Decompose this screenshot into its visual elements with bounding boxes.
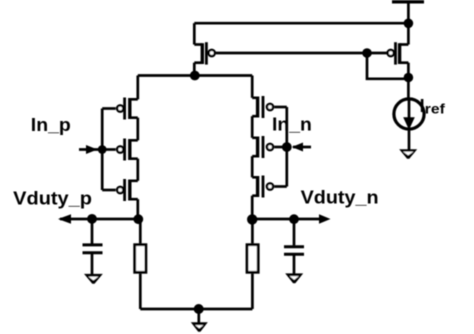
input arrow In_n bbox=[292, 143, 311, 152]
wire right branch between M6 M7 bbox=[251, 116, 254, 138]
wire left branch to Vduty_p rail bbox=[136, 199, 139, 219]
junction M2 gate node bbox=[362, 48, 372, 58]
output arrow Vduty_p bbox=[58, 214, 71, 223]
capacitor C1 bbox=[83, 219, 103, 278]
wire right branch between M7 M8 bbox=[251, 156, 254, 177]
svg-text:Vduty_n: Vduty_n bbox=[301, 187, 379, 207]
VDD supply symbol bbox=[392, 2, 424, 23]
junction In_p gate node bbox=[98, 145, 107, 154]
wire left gate bus bbox=[101, 109, 104, 191]
wire center node to ground bbox=[197, 309, 200, 325]
wire right branch upper bbox=[251, 76, 254, 98]
current source Iref bbox=[394, 99, 424, 130]
input arrow In_p bbox=[79, 145, 98, 154]
svg-text:ref: ref bbox=[425, 101, 445, 117]
transistor M7 PMOS right stack middle bbox=[252, 136, 287, 158]
transistor M4 PMOS left stack middle bbox=[102, 139, 138, 161]
junction VDD node bbox=[404, 19, 414, 29]
junction M2 drain node bbox=[404, 73, 414, 83]
transistor M5 PMOS left stack bottom bbox=[102, 179, 138, 201]
wire bottom rail bbox=[140, 308, 252, 311]
svg-text:Vduty_p: Vduty_p bbox=[13, 189, 92, 209]
wire left branch upper bbox=[136, 76, 139, 100]
svg-text:In_n: In_n bbox=[272, 114, 312, 134]
wire right branch to Vduty_n rail bbox=[251, 196, 254, 219]
ground below C2 bbox=[285, 273, 303, 283]
junction right branch output node bbox=[247, 214, 257, 224]
junction C1 node bbox=[87, 214, 97, 224]
resistor R1 bbox=[135, 219, 146, 309]
ground below C1 bbox=[84, 274, 103, 284]
wire left branch between M4 M5 bbox=[136, 159, 139, 181]
transistor M2 PMOS current-mirror right diode-connected bbox=[388, 23, 409, 77]
node Vduty_p rail wire bbox=[60, 218, 139, 221]
node Vduty_n rail wire bbox=[252, 218, 320, 221]
wire M2 diode connection bbox=[367, 53, 408, 79]
label Iref bbox=[420, 96, 446, 117]
transistor M1 PMOS current-mirror left bbox=[194, 23, 214, 75]
junction In_n gate node bbox=[282, 142, 292, 152]
transistor M6 PMOS right stack top bbox=[252, 96, 287, 118]
wire right gate bus bbox=[285, 107, 288, 187]
junction tail node bbox=[190, 71, 200, 81]
ground below Iref bbox=[399, 149, 417, 159]
junction bottom center node bbox=[194, 304, 204, 314]
svg-text:In_p: In_p bbox=[31, 115, 71, 135]
ground bottom center bbox=[191, 322, 208, 332]
wire left branch between M3 M4 bbox=[136, 118, 139, 141]
junction C2 node bbox=[289, 214, 299, 224]
junction left branch output node bbox=[133, 214, 143, 224]
transistor M8 PMOS right stack bottom bbox=[252, 176, 287, 198]
transistor M3 PMOS left stack top bbox=[102, 98, 138, 120]
wire top rail bbox=[194, 22, 408, 25]
wire M2 drain to current source bbox=[407, 78, 410, 100]
wire tail rail bbox=[138, 74, 252, 77]
wire gate bus M1 to M2 bbox=[216, 52, 387, 55]
wire Iref to ground bbox=[408, 129, 411, 153]
output arrow Vduty_n bbox=[319, 214, 331, 223]
resistor R2 bbox=[247, 219, 258, 309]
capacitor C2 bbox=[284, 219, 304, 279]
